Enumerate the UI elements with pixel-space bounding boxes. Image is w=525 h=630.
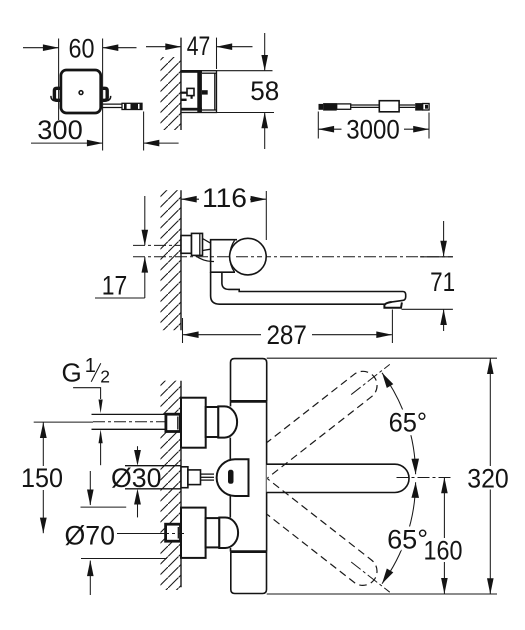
svg-text:47: 47: [187, 30, 211, 61]
svg-text:2: 2: [100, 366, 110, 386]
svg-text:65°: 65°: [387, 523, 428, 554]
svg-text:300: 300: [37, 114, 83, 145]
svg-text:71: 71: [430, 266, 455, 297]
svg-text:320: 320: [467, 463, 509, 494]
svg-text:160: 160: [424, 534, 463, 565]
svg-text:65°: 65°: [389, 407, 428, 438]
svg-text:150: 150: [21, 462, 63, 493]
svg-text:287: 287: [266, 319, 307, 350]
svg-text:Ø30: Ø30: [111, 462, 162, 493]
svg-text:58: 58: [250, 75, 279, 106]
svg-text:3000: 3000: [346, 113, 400, 144]
svg-text:60: 60: [69, 32, 95, 63]
svg-text:1: 1: [85, 355, 96, 377]
svg-text:116: 116: [202, 182, 247, 213]
svg-text:Ø70: Ø70: [65, 519, 116, 550]
svg-text:G: G: [62, 357, 82, 387]
svg-text:17: 17: [102, 269, 128, 300]
